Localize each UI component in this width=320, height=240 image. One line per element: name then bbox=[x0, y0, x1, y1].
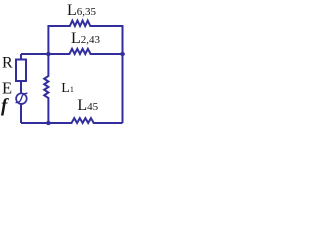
svg-text:L1: L1 bbox=[61, 81, 74, 96]
svg-text:L6,35: L6,35 bbox=[67, 2, 97, 19]
svg-text:f: f bbox=[1, 96, 9, 117]
svg-text:L45: L45 bbox=[77, 97, 98, 114]
svg-text:L2,43: L2,43 bbox=[71, 30, 101, 47]
svg-text:R: R bbox=[2, 55, 13, 72]
